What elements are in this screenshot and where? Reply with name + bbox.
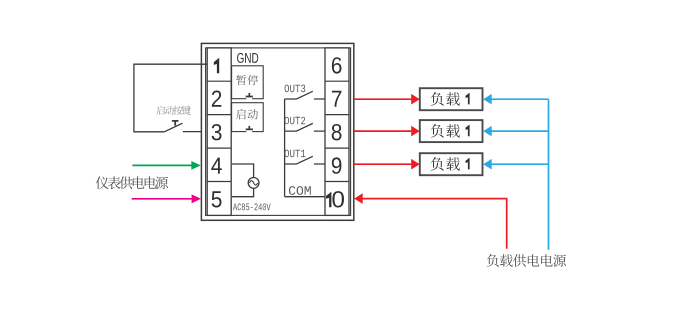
pause button label — [236, 75, 246, 85]
wire AC source to terminal 5 — [232, 188, 254, 196]
terminal 10 label — [326, 192, 331, 208]
label 启动按键 — [156, 106, 164, 115]
output common bus wire — [284, 99, 286, 197]
label COM — [289, 186, 311, 195]
start button box — [232, 103, 264, 132]
red return wire load supply to terminal 10 — [354, 193, 363, 204]
label OUT2 — [285, 117, 306, 125]
pause button contact symbol — [246, 98, 252, 100]
terminal 3 label — [212, 124, 222, 140]
terminal 6 label — [332, 57, 342, 73]
switch OUT1 — [285, 156, 325, 164]
cyan wire load2 to supply bus — [483, 126, 492, 137]
label OUT1 — [285, 150, 306, 158]
left terminal column — [207, 48, 231, 216]
red wire terminal 9 to load3 — [354, 163, 412, 165]
green supply arrow to terminal 4 — [132, 164, 191, 166]
AC source symbol — [248, 178, 259, 189]
external start button actuator — [172, 121, 179, 126]
wire terminal 4 to AC source — [232, 164, 254, 178]
external start button switch blade — [164, 123, 201, 132]
label OUT3 — [285, 85, 306, 93]
terminal divider row 3 — [207, 147, 349, 149]
red wire terminal 8 to load2 — [354, 130, 412, 132]
COM wire — [285, 196, 325, 198]
load box 1 — [420, 88, 483, 110]
cyan wire load3 to supply bus — [483, 159, 492, 170]
red wire terminal 7 to load1 — [354, 98, 412, 100]
controller outer case — [201, 43, 353, 220]
terminal divider row 4 — [207, 181, 349, 183]
terminal 9 label — [332, 157, 342, 173]
terminal 7 label — [332, 91, 342, 107]
magenta supply arrow to terminal 5 — [132, 198, 192, 200]
controller inner panel — [206, 48, 351, 216]
terminal 1 label — [214, 58, 219, 74]
terminal 2 label — [212, 91, 222, 107]
right terminal column — [325, 48, 349, 216]
label 仪表供电电源 — [96, 176, 109, 189]
start button contact symbol — [246, 131, 252, 133]
label 负载供电电源 — [487, 254, 499, 267]
start button label — [236, 109, 246, 119]
load box 3 — [420, 153, 483, 175]
label AC85-240V — [233, 203, 271, 210]
wire terminal 1 to external start button — [134, 64, 207, 132]
switch OUT3 — [285, 91, 325, 99]
pause button box — [232, 66, 264, 99]
cyan load supply bus — [548, 99, 550, 250]
terminal 5 label — [212, 191, 222, 207]
label GND — [237, 53, 258, 63]
switch OUT2 — [285, 123, 325, 131]
cyan wire load1 to supply bus — [483, 94, 492, 105]
terminal 8 label — [332, 124, 342, 140]
load box 2 — [420, 120, 483, 142]
terminal divider row 2 — [207, 114, 349, 116]
terminal divider row 1 — [207, 80, 349, 82]
terminal 4 label — [211, 158, 222, 174]
